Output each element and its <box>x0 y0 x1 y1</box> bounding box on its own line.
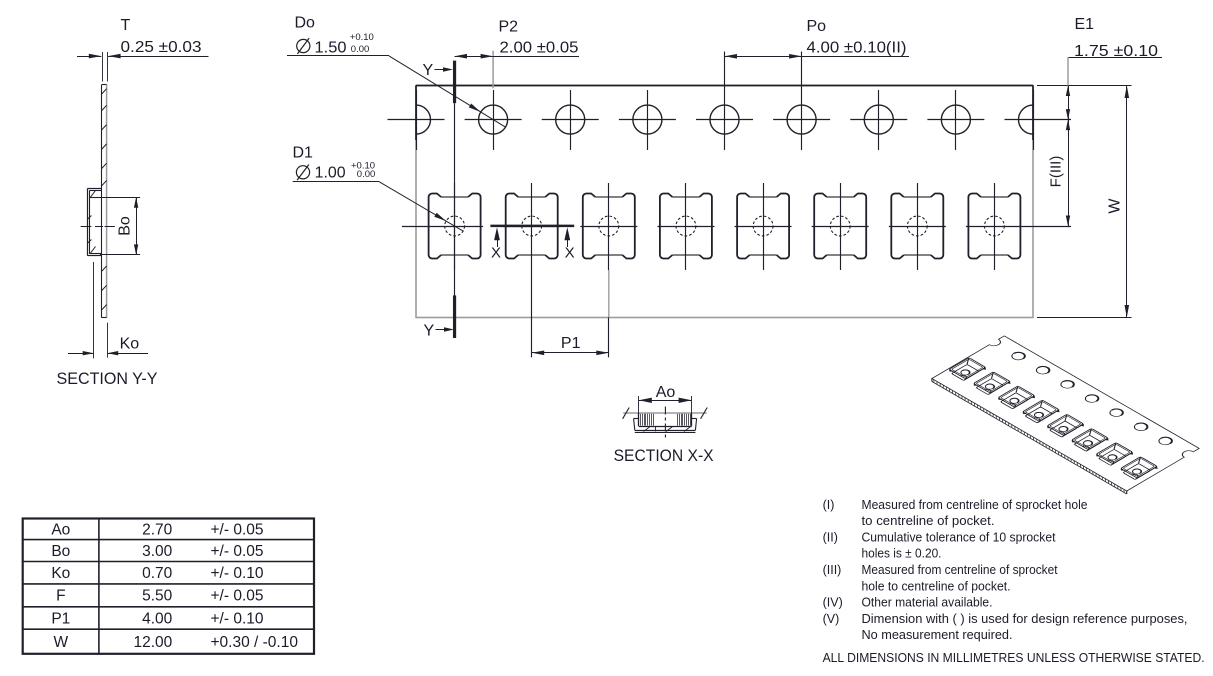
svg-text:+/- 0.05: +/- 0.05 <box>211 588 264 605</box>
svg-text:(IV): (IV) <box>823 596 843 610</box>
svg-text:P1: P1 <box>561 335 581 352</box>
svg-text:+0.10: +0.10 <box>350 32 374 43</box>
svg-text:4.00: 4.00 <box>142 610 173 627</box>
svg-text:+/- 0.10: +/- 0.10 <box>211 610 264 627</box>
svg-text:12.00: 12.00 <box>134 634 173 651</box>
svg-text:Y: Y <box>424 323 435 340</box>
svg-text:F(III): F(III) <box>1048 156 1065 188</box>
svg-text:4.00 ±0.10(II): 4.00 ±0.10(II) <box>807 40 907 57</box>
svg-text:0.70: 0.70 <box>142 565 173 582</box>
svg-text:F: F <box>56 588 65 605</box>
svg-text:(I): (I) <box>823 498 835 512</box>
svg-text:Measured from centreline of sp: Measured from centreline of sprocket hol… <box>862 498 1088 512</box>
svg-text:0.00: 0.00 <box>357 169 376 180</box>
svg-text:Other material available.: Other material available. <box>862 596 993 610</box>
svg-text:X: X <box>565 245 575 262</box>
svg-text:SECTION Y-Y: SECTION Y-Y <box>57 369 158 388</box>
svg-text:E1: E1 <box>1075 16 1095 33</box>
svg-text:Measured from centreline of sp: Measured from centreline of sprocket <box>862 563 1058 577</box>
svg-text:No measurement required.: No measurement required. <box>862 628 1013 642</box>
svg-text:hole to centreline of pocket.: hole to centreline of pocket. <box>862 579 1011 593</box>
svg-text:+0.30 / -0.10: +0.30 / -0.10 <box>211 634 299 651</box>
svg-text:+/- 0.05: +/- 0.05 <box>211 543 264 560</box>
svg-text:(II): (II) <box>823 530 838 544</box>
svg-text:to centreline of pocket.: to centreline of pocket. <box>862 514 995 528</box>
svg-text:P2: P2 <box>499 19 519 36</box>
svg-text:+/- 0.05: +/- 0.05 <box>211 521 264 538</box>
svg-text:Do: Do <box>295 15 316 32</box>
svg-text:Ko: Ko <box>51 565 70 582</box>
svg-text:Dimension with ( ) is used for: Dimension with ( ) is used for design re… <box>862 612 1188 626</box>
svg-text:0.25 ±0.03: 0.25 ±0.03 <box>121 39 202 56</box>
svg-text:holes is ± 0.20.: holes is ± 0.20. <box>862 547 942 561</box>
svg-text:Bo: Bo <box>117 216 134 236</box>
svg-text:D1: D1 <box>293 145 314 162</box>
svg-text:1.00: 1.00 <box>315 165 346 182</box>
svg-text:SECTION X-X: SECTION X-X <box>614 446 714 465</box>
svg-text:Ao: Ao <box>656 384 676 401</box>
svg-text:(V): (V) <box>823 612 840 626</box>
svg-text:ALL DIMENSIONS IN MILLIMETRES: ALL DIMENSIONS IN MILLIMETRES UNLESS OTH… <box>823 650 1205 665</box>
svg-text:1.50: 1.50 <box>315 40 347 57</box>
svg-text:W: W <box>53 634 68 651</box>
svg-text:3.00: 3.00 <box>142 543 173 560</box>
svg-text:Cumulative tolerance of 10 spr: Cumulative tolerance of 10 sprocket <box>862 530 1056 544</box>
svg-text:W: W <box>1107 198 1124 214</box>
svg-text:0.00: 0.00 <box>351 44 370 55</box>
svg-text:5.50: 5.50 <box>142 588 173 605</box>
svg-text:Y: Y <box>423 62 434 79</box>
svg-text:X: X <box>491 245 501 262</box>
svg-text:+/- 0.10: +/- 0.10 <box>211 565 264 582</box>
svg-text:Po: Po <box>807 18 827 35</box>
svg-text:2.70: 2.70 <box>142 521 173 538</box>
svg-text:Bo: Bo <box>51 543 70 560</box>
svg-text:T: T <box>121 17 131 34</box>
svg-text:P1: P1 <box>51 610 70 627</box>
svg-text:Ko: Ko <box>120 336 140 353</box>
svg-text:Ao: Ao <box>51 521 70 538</box>
svg-text:(III): (III) <box>823 563 842 577</box>
svg-text:2.00 ±0.05: 2.00 ±0.05 <box>500 39 579 56</box>
